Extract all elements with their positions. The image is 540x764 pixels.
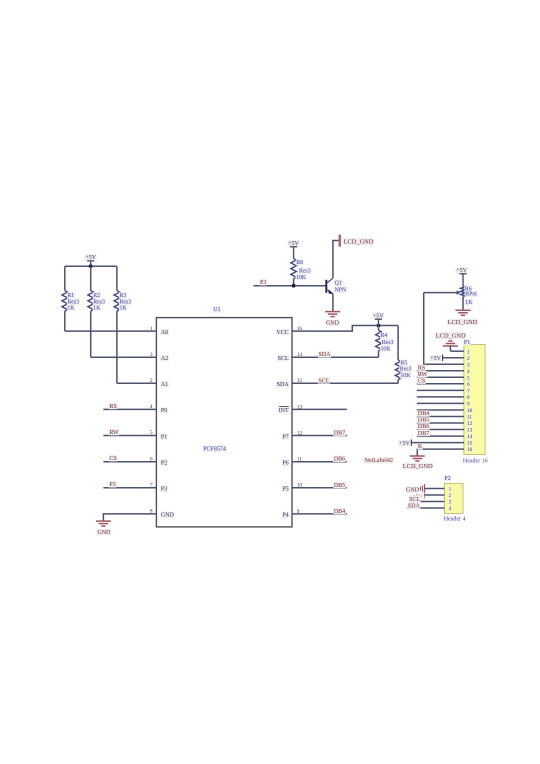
- svg-text:INT: INT: [279, 408, 289, 414]
- wire P1 pin9: [417, 402, 464, 404]
- svg-text:SCL: SCL: [409, 497, 420, 503]
- svg-text:A1: A1: [161, 382, 168, 388]
- svg-text:DB4: DB4: [418, 411, 429, 417]
- ground GND (Q1 emitter): [325, 312, 340, 327]
- svg-text:P1: P1: [464, 340, 470, 346]
- power +5V supply for address resistors: [85, 254, 97, 266]
- net label RS: [417, 365, 426, 371]
- svg-text:P1: P1: [161, 434, 167, 440]
- net label DB6: [417, 423, 430, 429]
- svg-text:NetLabel42: NetLabel42: [365, 458, 393, 464]
- transistor Q1 NPN: [326, 278, 347, 294]
- svg-text:+5V: +5V: [373, 313, 384, 319]
- net label SDA: [318, 351, 331, 357]
- wire P1 pin16 (net K): [417, 449, 464, 456]
- svg-text:P0: P0: [161, 408, 167, 414]
- net label P3: [109, 481, 117, 487]
- U1 right pin 9 P4: [282, 509, 300, 519]
- svg-text:1: 1: [150, 326, 153, 332]
- svg-text:Header 16: Header 16: [463, 459, 488, 465]
- wire P1 pin13: [417, 429, 464, 431]
- wire net P3 to U1: [103, 487, 156, 489]
- resistor R8 10K: [291, 259, 311, 286]
- wire R3 to pin A1: [117, 382, 156, 384]
- ground GND (P2 pin1): [405, 484, 424, 493]
- svg-text:R1: R1: [67, 293, 74, 299]
- power +5V (P1 pin15): [399, 439, 412, 447]
- wire P1 pin2: [443, 357, 464, 359]
- U1 right pin 14 SCL: [277, 352, 302, 362]
- svg-text:1K: 1K: [465, 300, 473, 306]
- net label RW: [109, 429, 120, 435]
- svg-text:GND: GND: [326, 321, 340, 327]
- ground GND (U1): [96, 521, 111, 536]
- wire U1 to net DB6: [292, 461, 347, 463]
- svg-text:P6: P6: [282, 461, 288, 467]
- svg-text:SDA: SDA: [277, 382, 290, 388]
- wire U1 INT pin stub: [292, 408, 347, 410]
- power +5V (R8 pullup): [288, 240, 300, 258]
- P1 pin number 15: [466, 440, 472, 446]
- wire P2 pin2: [425, 494, 445, 496]
- net label DB4: [333, 508, 346, 514]
- ground LCD_GND (P1 pin16): [402, 456, 433, 470]
- wire P1 pin5: [417, 376, 464, 378]
- net label RW: [417, 371, 428, 377]
- ground LCD_GND (P1 pin1): [435, 332, 466, 351]
- svg-text:Q1: Q1: [335, 280, 342, 286]
- resistor R2 1K: [88, 266, 106, 357]
- U1 left pin 5 P1: [150, 430, 168, 440]
- svg-text:9: 9: [467, 402, 470, 408]
- svg-text:+5V: +5V: [430, 356, 441, 362]
- P1 pin number 8: [466, 395, 470, 401]
- P1 pin number 11: [466, 414, 472, 420]
- svg-text:P3: P3: [260, 280, 266, 286]
- svg-text:R3: R3: [120, 293, 127, 299]
- P1 pin number 10: [466, 408, 472, 414]
- wire R2 to pin A2: [91, 356, 157, 358]
- svg-text:15: 15: [467, 441, 473, 447]
- wire R1 to pin A0: [65, 330, 157, 332]
- svg-text:U1: U1: [213, 307, 220, 313]
- svg-text:P3: P3: [161, 487, 167, 493]
- P1 pin number 4: [466, 369, 470, 375]
- svg-text:1: 1: [467, 349, 470, 355]
- svg-text:1: 1: [449, 487, 452, 493]
- svg-text:P3: P3: [109, 482, 115, 488]
- net label CS: [109, 455, 118, 461]
- net label P3: [259, 279, 267, 285]
- svg-text:RS: RS: [418, 366, 425, 372]
- svg-text:RW: RW: [418, 372, 428, 378]
- svg-text:2: 2: [449, 493, 452, 499]
- svg-text:R4: R4: [381, 333, 388, 339]
- svg-text:Res3: Res3: [382, 340, 394, 346]
- wire net RW to U1: [103, 435, 156, 437]
- wire U1 SCL pin to R4 (net SDA): [292, 356, 379, 358]
- wire P2 pin1: [425, 488, 445, 490]
- P1 pin number 14: [466, 434, 472, 440]
- potentiometer R6 RPot 1K: [424, 286, 478, 306]
- svg-text:VCC: VCC: [276, 330, 288, 336]
- U1 left pin 1 A0: [150, 326, 169, 336]
- svg-text:10K: 10K: [381, 346, 392, 352]
- U1 right pin 13 INT: [278, 404, 302, 414]
- wire P1 pin3: [424, 363, 464, 365]
- svg-text:3: 3: [449, 500, 452, 506]
- svg-text:RS: RS: [109, 404, 116, 410]
- resistor R3 1K: [114, 266, 132, 383]
- svg-text:K: K: [418, 444, 423, 450]
- wire P1 pin12: [417, 422, 464, 424]
- svg-text:4: 4: [467, 369, 470, 375]
- P2 pin number 2: [448, 493, 452, 499]
- net label SCL: [318, 377, 330, 383]
- svg-text:2: 2: [150, 378, 153, 384]
- P1 pin number 1: [466, 349, 470, 355]
- svg-text:GND: GND: [97, 530, 111, 536]
- net label DB5: [417, 417, 430, 423]
- svg-text:GND: GND: [406, 487, 420, 493]
- svg-text:8: 8: [467, 395, 470, 401]
- svg-text:SDA: SDA: [319, 352, 332, 358]
- svg-text:3: 3: [150, 352, 153, 358]
- power LCD_GND bar port (collector): [340, 235, 374, 247]
- svg-text:16: 16: [467, 447, 473, 453]
- net label SDA (P2): [407, 503, 420, 509]
- U1 left pin 3 A2: [150, 352, 169, 362]
- wire net CS to U1: [103, 461, 156, 463]
- svg-text:10: 10: [467, 408, 473, 414]
- svg-text:Res3: Res3: [299, 268, 311, 274]
- P1 pin number 2: [466, 356, 470, 362]
- U1 left pin 6 P2: [150, 456, 168, 466]
- svg-text:+5V: +5V: [399, 441, 410, 447]
- wire P1 pin8: [417, 396, 464, 398]
- svg-text:2: 2: [467, 356, 470, 362]
- net label DB4: [417, 410, 430, 416]
- svg-text:5: 5: [467, 375, 470, 381]
- junction +5V rail: [89, 264, 93, 268]
- wire net RS to U1: [103, 408, 156, 410]
- svg-text:DB5: DB5: [418, 418, 429, 424]
- resistor R4 10K: [376, 326, 394, 358]
- P1 pin number 9: [466, 401, 470, 407]
- net label DB7: [333, 430, 346, 436]
- power +5V (P2 pin2): [412, 492, 424, 500]
- svg-text:13: 13: [467, 428, 473, 434]
- junction VCC/+5V: [377, 324, 381, 328]
- wire P1 pin6: [417, 383, 464, 385]
- P2 pin number 3: [448, 499, 452, 505]
- svg-text:RPot: RPot: [465, 292, 477, 298]
- svg-text:SDA: SDA: [408, 504, 421, 510]
- wire P1 pin4: [417, 370, 464, 372]
- svg-text:LCD_GND: LCD_GND: [436, 333, 466, 340]
- wire P1 pin1: [450, 350, 464, 352]
- svg-text:Res3: Res3: [400, 367, 412, 373]
- P2 pin number 4: [448, 506, 452, 512]
- wire P1 pin11: [417, 416, 464, 418]
- svg-text:11: 11: [467, 415, 472, 421]
- wire P2 pin3 (net SCL): [411, 501, 444, 503]
- P1 pin number 5: [466, 375, 470, 381]
- svg-text:P4: P4: [282, 513, 288, 519]
- U1 left pin 8 GND: [150, 509, 175, 519]
- net label RS: [109, 403, 118, 409]
- svg-text:P5: P5: [282, 487, 288, 493]
- net label CS: [417, 378, 426, 384]
- svg-text:A0: A0: [161, 330, 168, 336]
- svg-text:CS: CS: [109, 456, 116, 462]
- ground LCD_GND (pot): [447, 310, 478, 326]
- svg-text:DB7: DB7: [334, 431, 345, 437]
- svg-text:DB7: DB7: [418, 431, 429, 437]
- wire U1 to net DB4: [292, 513, 347, 515]
- svg-text:DB4: DB4: [334, 509, 345, 515]
- wire U1 VCC to +5V: [292, 326, 398, 332]
- wire +5V rail: [65, 265, 117, 267]
- svg-text:R2: R2: [93, 293, 100, 299]
- svg-text:14: 14: [467, 434, 473, 440]
- svg-text:Res3: Res3: [120, 299, 132, 305]
- net label DB6: [333, 456, 346, 462]
- P1 pin number 13: [466, 427, 472, 433]
- svg-text:4: 4: [449, 506, 452, 512]
- svg-text:1K: 1K: [93, 306, 101, 312]
- svg-text:A2: A2: [161, 356, 168, 362]
- svg-text:LCD_GND: LCD_GND: [403, 463, 433, 470]
- svg-text:10K: 10K: [400, 373, 411, 379]
- svg-text:Header 4: Header 4: [444, 517, 466, 523]
- resistor R5 10K: [395, 326, 412, 384]
- wire P1 pin15: [411, 442, 464, 444]
- U1 left pin 4 P0: [150, 404, 168, 414]
- wire U1 SDA pin to R5 (net SCL): [292, 382, 398, 384]
- svg-text:1K: 1K: [67, 306, 75, 312]
- wire P1 pin7: [417, 389, 464, 391]
- svg-text:PCF8574: PCF8574: [203, 446, 226, 452]
- svg-text:12: 12: [467, 421, 473, 427]
- svg-text:10K: 10K: [296, 275, 307, 281]
- power +5V (VCC): [372, 312, 384, 325]
- svg-text:LCD_GND: LCD_GND: [448, 319, 478, 326]
- wire U1 GND pin to ground: [103, 514, 156, 521]
- power +5V (contrast pot): [456, 267, 468, 286]
- svg-text:P7: P7: [282, 434, 288, 440]
- U1 left pin 7 P3: [150, 483, 168, 493]
- P1 pin number 16: [466, 447, 472, 453]
- svg-text:Res3: Res3: [67, 299, 79, 305]
- P1 pin number 3: [466, 362, 470, 368]
- svg-text:R8: R8: [296, 260, 303, 266]
- svg-text:P2: P2: [444, 476, 450, 482]
- wire P1 pin10: [417, 409, 464, 411]
- svg-text:CS: CS: [418, 379, 425, 385]
- svg-text:P2: P2: [161, 461, 167, 467]
- svg-text:DB6: DB6: [334, 457, 345, 463]
- U1 right pin 10 P5: [282, 483, 303, 493]
- svg-text:LCD_GND: LCD_GND: [344, 238, 374, 245]
- svg-text:Res3: Res3: [93, 299, 105, 305]
- svg-text:DB5: DB5: [334, 483, 345, 489]
- U1 left pin 2 A1: [150, 378, 169, 388]
- svg-text:GND: GND: [161, 513, 175, 519]
- resistor R1 1K: [62, 266, 80, 331]
- svg-text:7: 7: [467, 389, 470, 395]
- wire net P3 to Q1 base: [253, 285, 325, 287]
- svg-text:RW: RW: [109, 430, 119, 436]
- wire pot wiper to P1 pin 3: [424, 293, 464, 365]
- net label NetLabel42: [364, 457, 394, 463]
- wire P1 pin14: [417, 435, 464, 437]
- junction R8/P3: [292, 284, 296, 288]
- svg-text:3: 3: [467, 362, 470, 368]
- P2 pin number 1: [448, 486, 452, 492]
- power +5V (P1 pin2): [430, 355, 443, 362]
- U1 right pin 16 VCC: [276, 326, 303, 336]
- net label DB7: [417, 430, 430, 436]
- net label K: [417, 443, 423, 449]
- svg-text:NPN: NPN: [335, 287, 347, 293]
- wire pot bottom to LCD_GND: [462, 297, 464, 310]
- U1 right pin 15 SDA: [276, 378, 302, 388]
- net label DB5: [333, 482, 346, 488]
- svg-text:SCL: SCL: [319, 378, 330, 384]
- U1 right pin 11 P6: [282, 457, 302, 467]
- net label SCL (P2): [409, 496, 421, 502]
- wire U1 to net DB7: [292, 435, 347, 437]
- wire Q1 collector to LCD_GND: [333, 241, 339, 279]
- connector P1 Header 16: [463, 339, 488, 465]
- U1 right pin 12 P7: [282, 430, 303, 440]
- wire Q1 emitter to ground: [332, 294, 334, 312]
- svg-text:SCL: SCL: [278, 356, 289, 362]
- svg-text:1K: 1K: [120, 306, 128, 312]
- wire P2 pin4 (net SDA): [407, 507, 445, 509]
- P1 pin number 7: [466, 388, 470, 394]
- IC U1 PCF8574: [156, 306, 292, 527]
- wire U1 to net DB5: [292, 487, 347, 489]
- P1 pin number 12: [466, 421, 472, 427]
- connector P2 Header 4: [444, 475, 466, 523]
- P1 pin number 6: [466, 382, 470, 388]
- svg-text:DB6: DB6: [418, 424, 429, 430]
- svg-text:6: 6: [467, 382, 470, 388]
